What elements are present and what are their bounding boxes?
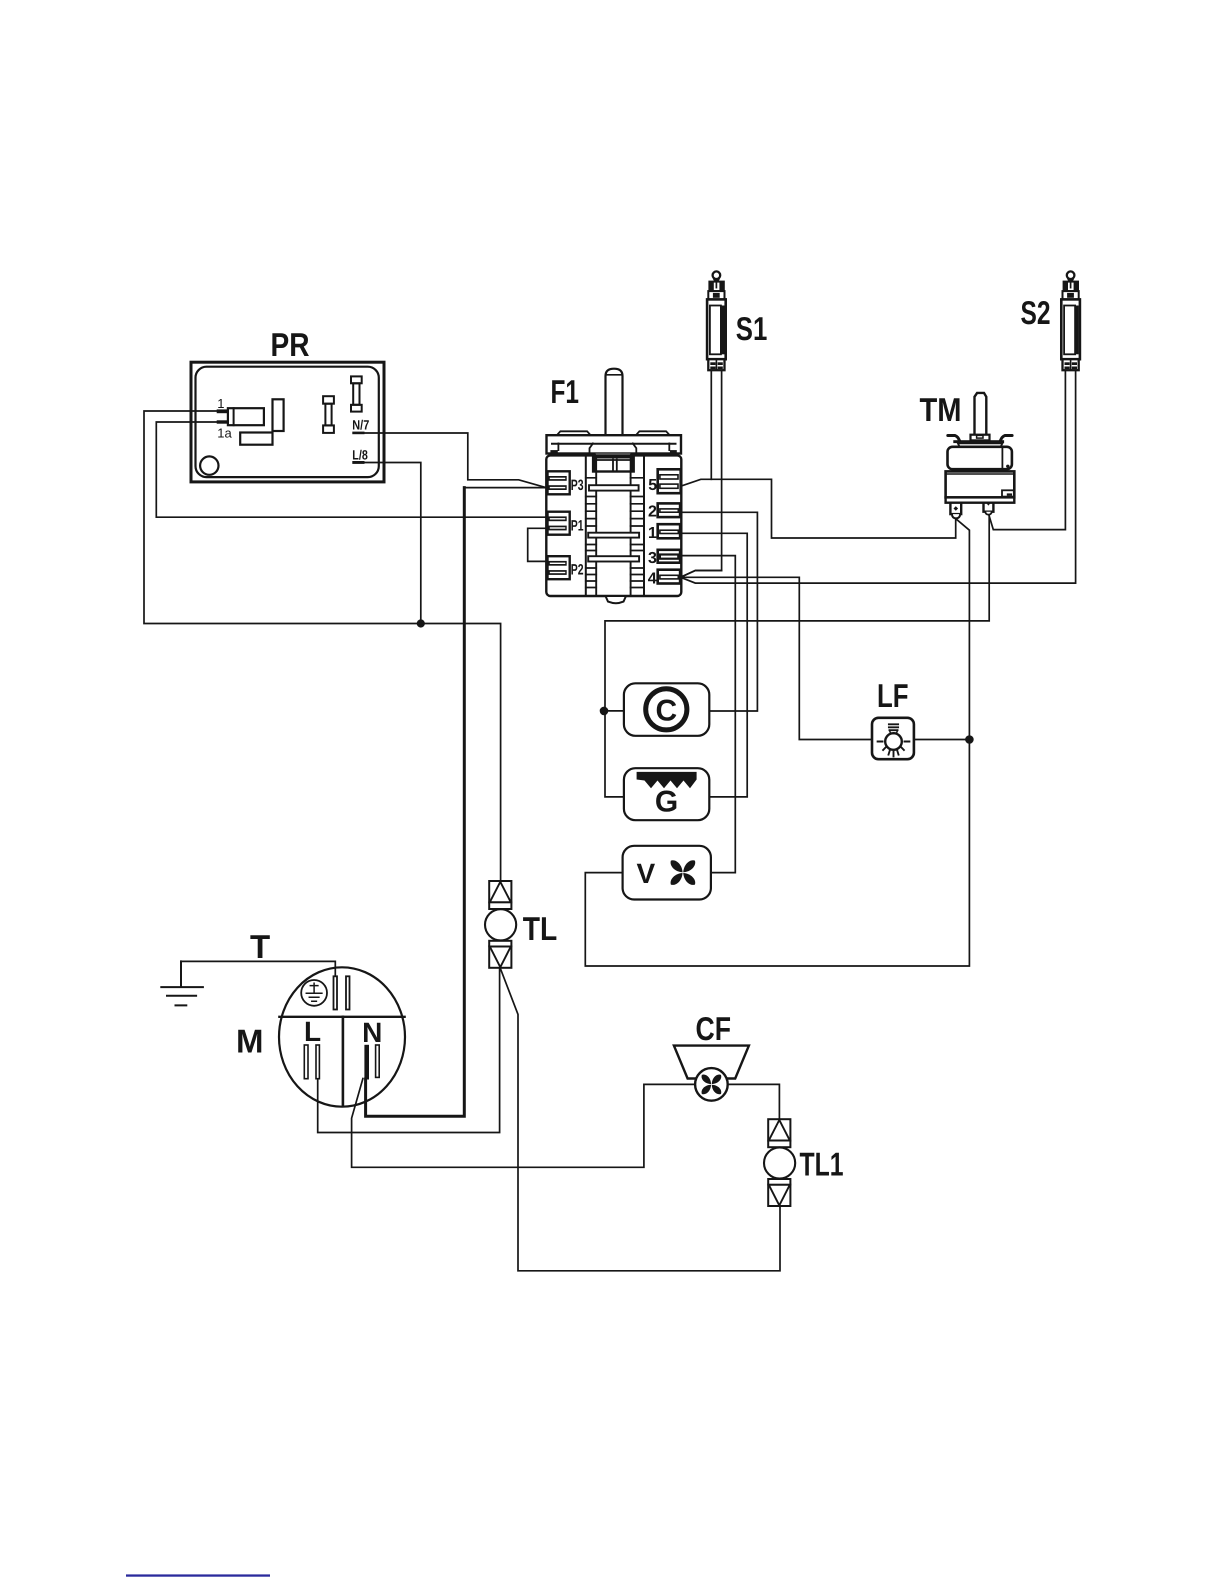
M L slots <box>304 1045 308 1079</box>
footer blue rule <box>126 1574 270 1576</box>
LF bulb <box>885 733 902 750</box>
F1 terminal 2 <box>658 503 680 517</box>
S2 cap <box>1064 282 1078 292</box>
svg-text:V: V <box>636 858 655 889</box>
svg-text:TM: TM <box>920 391 962 428</box>
wire S1 left lead <box>710 370 712 480</box>
M N slots <box>364 1045 369 1080</box>
wire PR pin 1 to TL top <box>144 411 501 882</box>
wire neutral F1 P3 to M terminal N <box>464 487 546 489</box>
svg-text:G: G <box>655 786 678 819</box>
thermal cutout TL1 <box>764 1119 795 1206</box>
S1 cap <box>709 282 723 292</box>
ground symbol <box>161 961 203 1005</box>
svg-text:N/7: N/7 <box>352 417 369 432</box>
svg-text:C: C <box>655 695 677 728</box>
F1 plate collar <box>590 443 637 453</box>
svg-text:TL1: TL1 <box>800 1146 844 1183</box>
TM lower body <box>946 471 1015 497</box>
svg-text:S1: S1 <box>736 310 768 347</box>
S2 body <box>1061 299 1080 359</box>
TM right terminal <box>984 503 994 512</box>
F1 plate corner blocks <box>550 450 557 454</box>
F1 terminal 3 <box>658 550 680 563</box>
TM mounting ears <box>948 436 960 441</box>
svg-text:TL: TL <box>523 910 558 947</box>
F1 rotor column <box>586 455 644 596</box>
grill element G <box>624 768 709 820</box>
svg-text:M: M <box>236 1023 264 1060</box>
TM bottom strip <box>946 497 1015 502</box>
wire F1 terminal 1 to G right <box>681 533 748 797</box>
TM upper body <box>948 447 1012 469</box>
F1 terminal 4 <box>658 570 680 584</box>
PR relay box <box>228 408 264 425</box>
PR terminal 1a stub <box>217 420 228 423</box>
wire F1 terminal 4 to S1 right lead <box>681 571 722 578</box>
selector switch F1 <box>528 369 682 603</box>
F1 bottom tab <box>606 596 627 603</box>
wire M terminal N to CF left <box>352 1079 696 1168</box>
LF rays <box>878 742 910 757</box>
junction dot LF right <box>965 735 974 744</box>
wire S2 left lead to TM right terminal <box>989 370 1065 530</box>
oven lamp LF <box>872 718 914 759</box>
wire TM left terminal to lamp node and V left <box>585 519 969 966</box>
wire TL bottom to TL1 bottom <box>500 968 780 1271</box>
wire M terminal L to TL bottom <box>318 968 500 1132</box>
F1 terminal P3 <box>548 471 570 494</box>
M earth circle <box>301 980 327 1006</box>
svg-text:3: 3 <box>648 550 657 567</box>
M divider vertical <box>342 1017 345 1106</box>
PR corner circle <box>200 456 218 474</box>
svg-text:1: 1 <box>648 525 657 542</box>
wire F1 terminal 4 to S2 right lead <box>681 370 1076 584</box>
wire F1 terminal 3 to V right <box>681 556 736 873</box>
PR vertical component <box>273 399 284 431</box>
M divider chord <box>279 1016 404 1018</box>
F1 shaft <box>606 369 623 435</box>
wire PR pin 1a to F1 P1 <box>156 422 547 517</box>
wire LF right to node <box>914 739 970 741</box>
wire F1 terminal 2 to C right <box>681 512 758 711</box>
F1 body <box>546 455 681 596</box>
F1 top plate <box>547 435 682 453</box>
F1 terminal 1 <box>658 524 680 538</box>
svg-text:LF: LF <box>877 677 909 714</box>
svg-text:L: L <box>304 1016 321 1047</box>
wire F1 terminal 4 to LF left <box>681 577 873 739</box>
TM mounting bar <box>953 440 1004 443</box>
S2 collar <box>1063 291 1079 299</box>
thermostat TM <box>946 393 1015 519</box>
F1 cam box <box>593 457 634 471</box>
terminal block M <box>279 967 405 1106</box>
PR L/8 underline <box>352 461 364 464</box>
svg-text:5: 5 <box>648 477 657 494</box>
TM left terminal <box>950 503 961 514</box>
junction dot PR/L8 <box>417 619 425 627</box>
PR N/7 underline <box>352 432 364 435</box>
thermal cutout TL <box>485 881 516 968</box>
S1 collar <box>708 291 724 299</box>
F1 mounting tabs <box>557 431 591 435</box>
svg-text:CF: CF <box>696 1010 732 1047</box>
S1 connector <box>708 359 724 370</box>
svg-text:S2: S2 <box>1021 294 1051 331</box>
svg-text:L/8: L/8 <box>352 447 368 462</box>
svg-text:T: T <box>250 928 270 965</box>
wire CF right to TL1 top <box>728 1084 780 1119</box>
svg-text:P2: P2 <box>571 562 584 579</box>
svg-text:N: N <box>362 1017 382 1048</box>
igniter S1 <box>707 271 726 370</box>
V fan icon <box>668 858 697 887</box>
circular element C <box>624 683 709 736</box>
svg-text:P3: P3 <box>571 477 584 494</box>
svg-text:P1: P1 <box>571 518 584 535</box>
cooling fan CF <box>674 1046 749 1101</box>
svg-text:PR: PR <box>271 326 310 363</box>
F1 jumper P1 to P2 <box>528 528 547 561</box>
F1 terminal P1 <box>548 512 570 535</box>
control board PR <box>191 362 384 482</box>
S2 ring <box>1067 271 1075 279</box>
F1 terminal 5 <box>658 469 681 493</box>
TM collar <box>971 435 990 441</box>
F1 terminal P2 <box>548 556 570 579</box>
wire TM right terminal to C and G left <box>605 515 989 797</box>
S1 ring <box>713 271 721 279</box>
wire F1 terminal 5 to TM left terminal <box>682 479 956 538</box>
TM neck <box>958 443 1003 446</box>
TM shaft <box>975 393 987 435</box>
S1 body <box>707 299 726 359</box>
fan element V <box>623 846 711 900</box>
svg-text:F1: F1 <box>551 373 580 410</box>
igniter S2 <box>1061 271 1080 370</box>
wire PR L/8 to junction <box>364 463 421 624</box>
PR fuse middle <box>323 396 334 433</box>
PR horizontal component <box>240 433 272 445</box>
M earth slots <box>334 976 338 1009</box>
F1 contact bars <box>589 485 639 490</box>
svg-text:1: 1 <box>217 396 224 411</box>
PR fuse right <box>351 376 362 411</box>
S2 connector <box>1063 359 1079 370</box>
junction dot C left <box>600 707 609 716</box>
svg-text:1a: 1a <box>217 425 232 440</box>
wire earth T to M block <box>181 961 335 977</box>
wire C left <box>604 710 624 712</box>
wire PR N/7 to F1 P3 <box>364 433 546 488</box>
svg-text:2: 2 <box>648 504 657 521</box>
wire S1 right lead to F1 terminal 4 <box>681 370 722 578</box>
PR terminal 1 stub <box>217 409 228 413</box>
F1 ladder rungs <box>586 478 644 588</box>
svg-text:4: 4 <box>648 571 657 588</box>
